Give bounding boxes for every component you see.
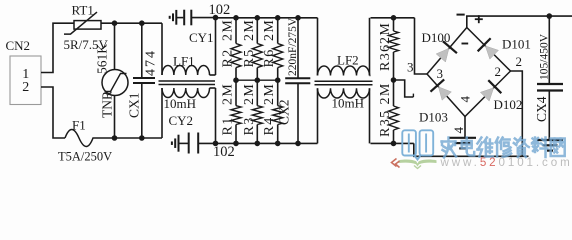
capacitor CX1 plates <box>133 77 155 79</box>
node bottom rail / CX1 <box>139 135 145 141</box>
svg-text:CY1: CY1 <box>189 30 214 45</box>
svg-text:R4: R4 <box>262 116 277 135</box>
diode D100 <box>436 48 449 62</box>
wire bottom rail F1 to corner <box>101 137 162 139</box>
svg-text:2: 2 <box>22 80 29 95</box>
wire bridge pin 4 to ground <box>464 117 466 138</box>
svg-text:2M: 2M <box>262 83 277 105</box>
inductor LF2 core <box>315 80 373 82</box>
ground below bridge <box>449 137 476 139</box>
node middle rail / R6-R4 <box>275 77 281 83</box>
resistor R3 (R3 2M) <box>256 80 258 106</box>
wire bridge plus output <box>467 16 572 27</box>
svg-text:R5: R5 <box>242 48 257 67</box>
varistor TNR wire bottom <box>114 96 116 139</box>
wire R36/R35 junction stub to bridge pin 1 <box>394 80 414 97</box>
resistor R2 (R2 2M) <box>235 18 237 44</box>
node top rail / CX2 <box>295 15 301 21</box>
resistor RT1 body <box>74 21 101 30</box>
svg-text:www.520101.com: www.520101.com <box>440 156 572 169</box>
inductor LF1 top winding <box>162 65 210 75</box>
svg-text:105/450V: 105/450V <box>538 33 550 80</box>
wire top rail down to bridge pin 3 <box>415 18 428 74</box>
capacitor CX4 wire top <box>548 16 550 84</box>
capacitor CX2 wire bottom <box>297 83 299 143</box>
svg-text:D100: D100 <box>422 30 451 45</box>
diode D101 <box>485 46 498 59</box>
capacitor CX1 wire top <box>141 23 143 78</box>
resistor R5 (R5 2M) <box>256 18 258 44</box>
capacitor CY2 plates <box>188 133 190 154</box>
resistor RT1 thermistor stroke <box>64 12 97 34</box>
node top rail / TNR <box>112 20 118 26</box>
wire LF1 top-right riser <box>215 18 217 75</box>
node top rail / CX1 <box>139 20 145 26</box>
svg-text:CN2: CN2 <box>6 38 31 53</box>
svg-text:2M: 2M <box>242 19 257 41</box>
wire top rail CY1 to bridge corner <box>216 17 318 19</box>
wire LF2 top-left riser <box>317 18 319 76</box>
capacitor CX2 wire top <box>297 18 299 79</box>
middle rail linking R pairs <box>236 79 278 81</box>
node top rail / R2 <box>233 15 239 21</box>
svg-text:102: 102 <box>209 2 231 18</box>
svg-text:T5A/250V: T5A/250V <box>58 150 112 164</box>
wire ground to CY2 <box>179 142 189 144</box>
svg-text:2: 2 <box>495 64 502 79</box>
minus mark at output <box>457 14 465 16</box>
watermark logo <box>392 130 437 168</box>
svg-text:R6: R6 <box>262 48 277 67</box>
svg-text:561K: 561K <box>95 44 110 74</box>
inductor LF1 bottom winding <box>162 88 210 98</box>
svg-text:R36: R36 <box>378 43 393 71</box>
wire ground to CY1 <box>176 17 183 19</box>
svg-text:2M: 2M <box>221 83 236 105</box>
wire CY2 to node <box>198 142 215 144</box>
connector CN2 body <box>10 56 41 105</box>
svg-text:D101: D101 <box>502 37 531 52</box>
inductor LF2 top winding <box>318 66 370 76</box>
wire top rail RT1 to corner <box>101 22 162 24</box>
svg-text:R1: R1 <box>221 116 236 135</box>
inductor LF1 core <box>159 80 216 82</box>
node bottom rail / R1 <box>233 141 239 147</box>
svg-text:D103: D103 <box>419 110 448 125</box>
node CY1 junction <box>213 15 219 21</box>
svg-text:10mH: 10mH <box>332 96 365 111</box>
wire LF1 bottom-right riser <box>215 88 217 143</box>
capacitor CX1 wire bottom <box>141 83 143 138</box>
resistor R36 (R36 2M) <box>393 18 395 31</box>
ground for CY1 <box>175 10 177 25</box>
svg-text:3: 3 <box>407 60 414 75</box>
wire bottom rail CY2 to LF2 <box>216 142 318 144</box>
svg-text:RT1: RT1 <box>72 3 94 18</box>
svg-text:D102: D102 <box>494 97 523 112</box>
svg-text:F1: F1 <box>72 118 86 133</box>
svg-text:474: 474 <box>144 49 159 76</box>
svg-text:CY2: CY2 <box>169 113 194 128</box>
wire bottom rail LF2 to step <box>371 142 414 144</box>
node top rail / R6 <box>275 15 281 21</box>
minus mark inside bridge <box>462 43 469 45</box>
ground for CY2 <box>178 135 180 152</box>
node R36/R35 junction <box>391 77 397 83</box>
wire CN2 pin1 to top rail <box>41 23 74 72</box>
svg-text:102: 102 <box>213 144 235 160</box>
svg-text:R35: R35 <box>378 109 393 137</box>
svg-text:2: 2 <box>516 54 523 69</box>
node output rail / CX4 <box>547 13 553 19</box>
svg-text:4: 4 <box>451 127 466 134</box>
node top rail / R5 <box>254 15 260 21</box>
wire CY1 to node <box>191 17 215 19</box>
inductor LF2 bottom winding <box>318 88 370 98</box>
svg-text:2M: 2M <box>221 19 236 41</box>
svg-text:LF2: LF2 <box>337 53 359 68</box>
svg-text:220nF/275V: 220nF/275V <box>287 17 299 76</box>
node bottom rail / R35 <box>391 141 397 147</box>
svg-text:CX4: CX4 <box>534 96 549 122</box>
capacitor CX4 wire bottom <box>548 91 550 141</box>
svg-text:CX1: CX1 <box>127 92 142 118</box>
svg-text:2M: 2M <box>378 22 393 44</box>
node bottom rail / TNR <box>112 135 118 141</box>
diode D102 <box>480 88 493 101</box>
capacitor CY1 plates <box>183 10 185 26</box>
resistor R4 (R4 2M) <box>277 80 279 106</box>
svg-text:3: 3 <box>437 66 444 81</box>
bridge rectifier diamond edges <box>427 28 511 117</box>
wire bottom rail step-down under bridge <box>414 143 529 156</box>
wire LF2 bottom-right riser <box>369 88 371 143</box>
svg-text:2M: 2M <box>262 19 277 41</box>
wire LF2 bottom-left riser <box>317 88 319 143</box>
varistor TNR symbol <box>105 74 127 92</box>
node middle rail / R5-R3 <box>254 77 260 83</box>
svg-text:2M: 2M <box>242 83 257 105</box>
svg-text:4: 4 <box>458 96 473 103</box>
wire top rail LF2 to corner <box>371 17 415 19</box>
svg-text:LF1: LF1 <box>173 54 195 69</box>
node bottom rail / R3 <box>254 141 260 147</box>
node bottom rail / CX2 <box>295 141 301 147</box>
wire LF1 top-left riser <box>161 23 163 75</box>
ground below CX4 <box>537 139 563 141</box>
svg-text:R3: R3 <box>242 116 257 135</box>
resistor R1 (R1 2M) <box>235 80 237 106</box>
resistor R6 (R6 2M) <box>277 18 279 44</box>
capacitor CX2 plates <box>285 77 310 79</box>
varistor TNR circle <box>102 70 128 96</box>
svg-text:TNR: TNR <box>100 91 115 118</box>
varistor TNR wire top <box>114 23 116 69</box>
diode D103 <box>438 87 451 100</box>
plus mark at output <box>475 18 483 20</box>
svg-text:10mH: 10mH <box>164 96 197 111</box>
node middle rail / R2-R1 <box>233 77 239 83</box>
watermark text jiadian weixiu ziliao wang <box>442 138 565 158</box>
svg-text:CX2: CX2 <box>277 99 292 125</box>
resistor R35 (R35 2M) <box>393 80 395 106</box>
wire CN2 pin2 to bottom rail <box>41 87 65 138</box>
capacitor CX4 plates <box>537 83 563 85</box>
node top rail / R36 <box>391 15 397 21</box>
node CY2 junction <box>213 141 219 147</box>
node bottom rail / R4 <box>275 141 281 147</box>
fuse F1 <box>65 130 101 147</box>
wire LF1 bottom-left riser <box>161 88 163 138</box>
svg-text:2M: 2M <box>378 82 393 104</box>
wire bridge pin 2 drop <box>511 71 523 156</box>
wire LF2 top-right riser <box>369 18 371 76</box>
svg-text:R2: R2 <box>221 48 236 67</box>
